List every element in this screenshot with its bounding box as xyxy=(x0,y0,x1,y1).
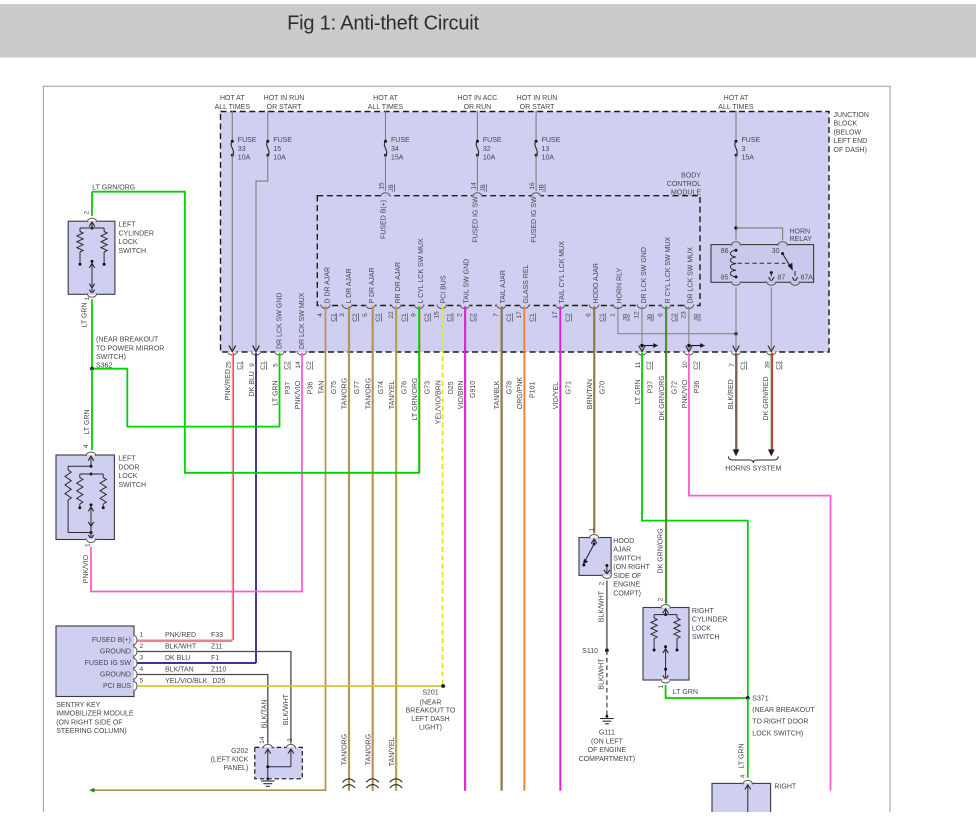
wire BRN/TAN G70 (BCM HODO AJAR to hood ajar switch) xyxy=(593,306,595,533)
svg-text:IMMOBILIZER MODULE: IMMOBILIZER MODULE xyxy=(56,711,134,718)
svg-text:G202: G202 xyxy=(231,748,248,755)
svg-text:TAN/YEL: TAN/YEL xyxy=(389,737,396,766)
svg-text:1: 1 xyxy=(84,543,91,547)
svg-text:2: 2 xyxy=(457,313,464,317)
svg-text:85: 85 xyxy=(721,275,729,282)
svg-text:TAN/YEL: TAN/YEL xyxy=(389,380,396,409)
svg-text:DK GRN/RED: DK GRN/RED xyxy=(763,376,770,420)
svg-text:FUSED B(+): FUSED B(+) xyxy=(92,637,131,644)
svg-text:5: 5 xyxy=(140,677,144,684)
svg-text:TAIL CYL LCK MUX: TAIL CYL LCK MUX xyxy=(559,241,566,304)
svg-text:DOOR: DOOR xyxy=(118,464,139,471)
wire LT GRN (left cylinder lock 1 to S362) xyxy=(91,299,93,368)
splice S371 xyxy=(746,696,750,700)
svg-text:G78: G78 xyxy=(507,381,514,394)
svg-text:F33: F33 xyxy=(211,632,223,639)
svg-text:SWITCH: SWITCH xyxy=(613,555,641,562)
svg-text:HODO AJAR: HODO AJAR xyxy=(593,263,600,303)
svg-text:DR LCK SW MUX: DR LCK SW MUX xyxy=(688,247,695,304)
svg-text:YEL/VIO/BRN: YEL/VIO/BRN xyxy=(436,380,443,424)
svg-text:10A: 10A xyxy=(273,155,286,162)
svg-text:LOCK: LOCK xyxy=(118,473,137,480)
svg-text:1: 1 xyxy=(589,528,596,532)
svg-text:SWITCH: SWITCH xyxy=(692,634,720,641)
svg-text:LEFT: LEFT xyxy=(119,222,137,229)
SKIM pin bumps and numbers xyxy=(133,635,135,645)
svg-text:C2: C2 xyxy=(284,361,291,370)
relay bottom bumps xyxy=(731,281,741,283)
wire fuse3 output to horn relay xyxy=(735,155,737,240)
svg-text:CONTROL: CONTROL xyxy=(667,181,701,188)
svg-text:HOT AT: HOT AT xyxy=(220,95,245,102)
svg-text:DR LCK SW GND: DR LCK SW GND xyxy=(277,293,284,349)
svg-text:(ON LEFT: (ON LEFT xyxy=(591,738,624,745)
svg-text:JB: JB xyxy=(539,184,546,192)
svg-text:C1: C1 xyxy=(506,313,513,322)
diagram frame xyxy=(43,86,890,812)
svg-text:C2: C2 xyxy=(306,361,313,370)
svg-text:R CYL LCK SW MUX: R CYL LCK SW MUX xyxy=(665,237,672,304)
wire TAN/YEL G76 (BCM RR DR AJAR) xyxy=(395,306,397,791)
svg-text:YEL/VIO/BLK: YEL/VIO/BLK xyxy=(165,678,208,685)
svg-text:14: 14 xyxy=(259,736,266,744)
svg-text:PNK/VIO: PNK/VIO xyxy=(295,380,302,409)
svg-text:LEFT END: LEFT END xyxy=(834,138,868,145)
svg-text:JB: JB xyxy=(647,313,654,321)
svg-text:G74: G74 xyxy=(378,381,385,394)
svg-text:LT GRN/ORG: LT GRN/ORG xyxy=(92,184,135,191)
svg-text:TAIL AJAR: TAIL AJAR xyxy=(500,270,507,303)
svg-text:C2: C2 xyxy=(565,313,572,322)
svg-text:JB: JB xyxy=(694,313,701,321)
svg-text:FUSED IG SW: FUSED IG SW xyxy=(85,660,132,667)
left cylinder lock switch box xyxy=(68,221,115,294)
pin 1 right cylinder lock switch xyxy=(660,679,670,681)
svg-text:DR LCK SW MUX: DR LCK SW MUX xyxy=(299,292,306,349)
svg-text:HOT AT: HOT AT xyxy=(373,95,398,102)
svg-text:P DR AJAR: P DR AJAR xyxy=(369,267,376,303)
svg-text:VIO/BRN: VIO/BRN xyxy=(458,380,465,409)
wire BLK/WHT (hood ajar 2 to S110) xyxy=(606,580,608,650)
node fuse3/relay-30 junction xyxy=(734,226,737,229)
svg-text:C1: C1 xyxy=(330,313,337,322)
svg-text:GROUND: GROUND xyxy=(100,672,131,679)
svg-text:(NEAR BREAKOUT: (NEAR BREAKOUT xyxy=(96,337,159,344)
wire TAN/ORG G74 (BCM P DR AJAR) xyxy=(372,306,374,791)
wire TAN/BLK G78 (BCM TAIL AJAR) xyxy=(500,306,502,790)
svg-text:P36: P36 xyxy=(307,382,314,395)
svg-text:TO POWER MIRROR: TO POWER MIRROR xyxy=(96,345,164,352)
svg-text:P36: P36 xyxy=(694,381,701,394)
splice S110 xyxy=(605,649,609,653)
svg-text:12: 12 xyxy=(634,311,641,319)
svg-text:C1: C1 xyxy=(260,361,267,370)
svg-text:HORN: HORN xyxy=(790,228,811,235)
horns arrow left xyxy=(733,449,740,456)
svg-text:S201: S201 xyxy=(422,690,438,697)
svg-text:(LEFT KICK: (LEFT KICK xyxy=(211,757,249,764)
JB pin 5 C2 xyxy=(274,351,284,353)
svg-text:13: 13 xyxy=(542,146,550,153)
svg-text:2: 2 xyxy=(140,643,144,650)
svg-text:CYLINDER: CYLINDER xyxy=(692,617,727,624)
svg-text:TAIL SW GND: TAIL SW GND xyxy=(464,259,471,304)
svg-text:DK BLU: DK BLU xyxy=(165,655,190,662)
svg-text:C2: C2 xyxy=(352,313,359,322)
svg-text:(NEAR: (NEAR xyxy=(420,699,442,706)
svg-text:ENGINE: ENGINE xyxy=(613,582,640,589)
svg-text:2: 2 xyxy=(84,210,91,214)
right cylinder lock switch internals xyxy=(663,609,669,614)
svg-text:4: 4 xyxy=(317,313,324,317)
continuation arcs TAN/ORG G77 xyxy=(343,779,355,782)
fuse 32 10A xyxy=(476,111,478,142)
svg-text:S110: S110 xyxy=(582,648,598,655)
svg-text:Fig 1: Anti-theft Circuit: Fig 1: Anti-theft Circuit xyxy=(287,13,479,35)
svg-text:23: 23 xyxy=(681,311,688,319)
svg-text:COMPT): COMPT) xyxy=(613,590,641,597)
pin 1 left door lock switch xyxy=(86,538,96,540)
wire relay 87 to JB pin 39 xyxy=(770,287,772,351)
svg-text:S371: S371 xyxy=(752,696,768,703)
splice S201 xyxy=(441,684,445,688)
fuse 13 10A xyxy=(535,111,537,142)
relay pin 86 bump xyxy=(731,243,741,245)
svg-text:G71: G71 xyxy=(566,381,573,394)
svg-text:FUSED B(+): FUSED B(+) xyxy=(381,200,388,239)
svg-text:OR START: OR START xyxy=(267,104,302,111)
svg-text:PNK/RED: PNK/RED xyxy=(225,369,232,400)
svg-text:RR DR AJAR: RR DR AJAR xyxy=(395,262,402,304)
svg-text:SENTRY KEY: SENTRY KEY xyxy=(56,702,100,709)
svg-text:TAN/ORG: TAN/ORG xyxy=(342,734,349,765)
svg-text:SWITCH: SWITCH xyxy=(119,248,147,255)
svg-text:Z11: Z11 xyxy=(211,643,223,650)
svg-text:BLK/TAN: BLK/TAN xyxy=(261,700,268,729)
wire VIO/BRN G910 (BCM TAIL SW GND) xyxy=(464,306,466,790)
svg-text:FUSED IG SW: FUSED IG SW xyxy=(531,196,538,243)
svg-text:LOCK: LOCK xyxy=(119,239,138,246)
wire VIO/YEL G71 (BCM TAIL CYL LCK MUX) xyxy=(559,306,561,790)
svg-text:BLK/WHT: BLK/WHT xyxy=(598,658,605,690)
ground symbol G111 xyxy=(606,715,609,718)
svg-text:LEFT DASH: LEFT DASH xyxy=(411,716,449,723)
svg-text:C1: C1 xyxy=(740,361,747,370)
svg-text:L DR AJAR: L DR AJAR xyxy=(346,268,353,303)
svg-text:10A: 10A xyxy=(483,155,496,162)
wire TAN G75 (BCM D DR AJAR) xyxy=(94,306,326,790)
wire DK GRN/RED (JB 39 to horns) xyxy=(770,353,772,450)
wire TAN/ORG G77 (BCM L DR AJAR) xyxy=(348,306,350,791)
svg-text:C1: C1 xyxy=(447,313,454,322)
svg-text:PNK/VIO: PNK/VIO xyxy=(83,554,90,583)
svg-text:BLK/WHT: BLK/WHT xyxy=(283,693,290,725)
relay coil 86-85 xyxy=(735,249,738,252)
svg-text:TAN/BLK: TAN/BLK xyxy=(494,380,501,409)
horn relay box xyxy=(711,245,814,283)
wire YEL/VIO/BLK D25 row (to S201) xyxy=(137,685,443,687)
wire LT GRN P37 (JB 5 to S362 branch) xyxy=(92,353,280,427)
svg-text:1: 1 xyxy=(84,296,91,300)
svg-text:RIGHT: RIGHT xyxy=(692,608,715,615)
svg-text:TAN/ORG: TAN/ORG xyxy=(365,734,372,765)
wire DR LCK SW GND internal (BCM pin 12 to JB pin 11) xyxy=(641,306,643,351)
wire LT GRN/ORG drop to switch pin 2 xyxy=(91,192,93,216)
wire LT GRN (right cylinder lock 1 to S371) xyxy=(666,685,748,698)
wire LT GRN (S362 to left door lock 4) xyxy=(91,369,93,450)
svg-text:G111: G111 xyxy=(599,730,615,737)
svg-text:6: 6 xyxy=(658,313,665,317)
svg-text:G73: G73 xyxy=(424,381,431,394)
svg-text:LT GRN: LT GRN xyxy=(673,689,698,696)
svg-text:87: 87 xyxy=(778,275,786,282)
svg-text:BLK/WHT: BLK/WHT xyxy=(598,590,605,622)
svg-text:COMPARTMENT): COMPARTMENT) xyxy=(579,756,636,763)
svg-text:HOT IN RUN: HOT IN RUN xyxy=(264,95,305,102)
svg-text:BLOCK: BLOCK xyxy=(834,121,858,128)
svg-text:Z110: Z110 xyxy=(211,666,227,673)
svg-text:FUSED IG SW: FUSED IG SW xyxy=(472,196,479,243)
svg-text:33: 33 xyxy=(238,146,246,153)
svg-text:LT GRN: LT GRN xyxy=(82,302,89,327)
hood ajar switch internals xyxy=(591,539,597,544)
svg-text:TAN: TAN xyxy=(318,381,325,394)
svg-text:P37: P37 xyxy=(647,381,654,394)
wire PNK/VIO P36 (JB 10 to right door area) xyxy=(689,353,831,791)
wire LT GRN (S371 to right door lock 4) xyxy=(747,698,749,778)
svg-text:15: 15 xyxy=(273,146,281,153)
wire fuse33 output to JB pin 25 xyxy=(231,155,233,351)
svg-text:LT GRN: LT GRN xyxy=(738,743,745,768)
svg-text:(ON RIGHT: (ON RIGHT xyxy=(613,564,650,571)
wire fuse15 output jog to JB pin 9 xyxy=(256,155,268,351)
svg-text:GROUND: GROUND xyxy=(100,649,131,656)
ground symbol G202 xyxy=(266,777,269,780)
svg-text:STEERING COLUMN): STEERING COLUMN) xyxy=(56,728,126,735)
svg-text:OR START: OR START xyxy=(520,104,555,111)
svg-text:F1: F1 xyxy=(211,655,219,662)
svg-text:HOT IN RUN: HOT IN RUN xyxy=(517,95,558,102)
relay pin 30 bump xyxy=(777,243,787,245)
svg-text:DK GRN/ORG: DK GRN/ORG xyxy=(658,528,665,573)
wire DK GRN/ORG G72 (BCM R CYL LCK SW MUX to right cylinder lock switch) xyxy=(665,306,667,603)
svg-text:15: 15 xyxy=(433,311,440,319)
wire PNK/RED F33 row xyxy=(137,639,233,641)
svg-text:14: 14 xyxy=(471,182,478,190)
svg-text:HORNS SYSTEM: HORNS SYSTEM xyxy=(725,465,781,472)
svg-text:1: 1 xyxy=(610,313,617,317)
svg-text:BRN/TAN: BRN/TAN xyxy=(587,379,594,409)
relay pin 87A xyxy=(794,271,796,276)
svg-text:CYLINDER: CYLINDER xyxy=(119,230,154,237)
svg-text:LOCK: LOCK xyxy=(692,625,711,632)
horns arrow right xyxy=(768,449,775,456)
wire PNK/VIO P36 (JB 14 to left door lock 1) xyxy=(91,353,302,592)
svg-text:LEFT: LEFT xyxy=(118,456,136,463)
svg-text:5: 5 xyxy=(362,313,369,317)
svg-text:HOT AT: HOT AT xyxy=(724,95,749,102)
svg-text:ALL TIMES: ALL TIMES xyxy=(215,104,251,111)
svg-text:TAN/ORG: TAN/ORG xyxy=(365,378,372,409)
svg-text:OF ENGINE: OF ENGINE xyxy=(588,747,627,754)
JB pin 25 C1 xyxy=(227,351,237,353)
svg-text:P101: P101 xyxy=(530,382,537,398)
JB pin 14 C2 xyxy=(297,351,307,353)
svg-text:ORG/PNK: ORG/PNK xyxy=(517,377,524,410)
svg-text:C3: C3 xyxy=(776,361,783,370)
fuse 15 10A xyxy=(267,111,269,142)
right cylinder lock switch box xyxy=(643,608,689,681)
wire BLK/TAN Z110 row (to G202) xyxy=(137,675,267,744)
pin 1 left cylinder lock switch xyxy=(87,293,97,295)
wire ORG/PNK P101 (BCM GLASS REL) xyxy=(523,306,525,790)
svg-text:L CYL LCK SW MUX: L CYL LCK SW MUX xyxy=(418,238,425,304)
svg-text:10A: 10A xyxy=(542,155,555,162)
svg-text:(ON RIGHT SIDE OF: (ON RIGHT SIDE OF xyxy=(56,719,122,726)
svg-text:4: 4 xyxy=(739,774,746,778)
svg-text:HOT IN ACC: HOT IN ACC xyxy=(457,95,497,102)
svg-text:17: 17 xyxy=(552,311,559,319)
svg-text:4: 4 xyxy=(83,444,90,448)
svg-text:D25: D25 xyxy=(213,678,226,685)
svg-text:C2: C2 xyxy=(424,313,431,322)
svg-text:30: 30 xyxy=(772,248,780,255)
svg-text:RIGHT: RIGHT xyxy=(774,783,797,790)
fuse 33 10A xyxy=(231,111,233,142)
body control module (dashed box) xyxy=(317,196,700,306)
svg-text:RELAY: RELAY xyxy=(790,236,813,243)
svg-text:GLASS REL: GLASS REL xyxy=(523,264,530,303)
svg-text:22: 22 xyxy=(388,311,395,319)
fuse 3 15A xyxy=(735,111,737,142)
svg-text:G75: G75 xyxy=(331,381,338,394)
svg-text:34: 34 xyxy=(391,146,399,153)
svg-text:C2: C2 xyxy=(671,313,678,322)
svg-text:BODY: BODY xyxy=(681,172,701,179)
pin 2 hood ajar switch xyxy=(602,574,612,576)
svg-text:VIO/YEL: VIO/YEL xyxy=(553,382,560,409)
svg-text:LT GRN: LT GRN xyxy=(272,380,279,405)
wire fuse34 output to BCM pin 15 JB xyxy=(385,155,387,191)
svg-text:D25: D25 xyxy=(448,381,455,394)
svg-text:C2: C2 xyxy=(470,313,477,322)
svg-text:ALL TIMES: ALL TIMES xyxy=(368,104,404,111)
svg-text:C1: C1 xyxy=(237,361,244,370)
svg-text:TO RIGHT DOOR: TO RIGHT DOOR xyxy=(752,719,808,726)
JB pin 9 C1 xyxy=(251,351,261,353)
svg-text:FUSE: FUSE xyxy=(483,137,502,144)
horns system brace xyxy=(728,456,778,463)
svg-text:TAN/ORG: TAN/ORG xyxy=(342,378,349,409)
relay pin 87 xyxy=(770,271,773,274)
svg-text:9: 9 xyxy=(411,313,418,317)
right door lock switch box xyxy=(712,783,771,813)
svg-text:FUSE: FUSE xyxy=(273,137,292,144)
svg-text:PCI BUS: PCI BUS xyxy=(441,275,448,303)
svg-text:2: 2 xyxy=(658,597,665,601)
svg-text:SWITCH): SWITCH) xyxy=(96,354,126,361)
wire DK BLU F1 (JB 9 to SKIM 3) xyxy=(255,353,257,663)
svg-text:G72: G72 xyxy=(671,381,678,394)
svg-text:D DR AJAR: D DR AJAR xyxy=(324,267,331,304)
svg-text:7: 7 xyxy=(493,313,500,317)
svg-text:P37: P37 xyxy=(285,382,292,395)
svg-text:3: 3 xyxy=(339,313,346,317)
svg-text:LIGHT): LIGHT) xyxy=(419,725,442,732)
svg-text:G77: G77 xyxy=(354,381,361,394)
svg-text:87A: 87A xyxy=(801,275,814,282)
svg-text:AJAR: AJAR xyxy=(613,547,631,554)
svg-text:2: 2 xyxy=(598,581,605,585)
wire LT GRN/ORG G73 (BCM L CYL LCK SW MUX to left cylinder lock switch) xyxy=(92,192,419,473)
wire BLK/WHT dashed (S110 to G111) xyxy=(606,650,608,715)
svg-text:G910: G910 xyxy=(470,381,477,398)
svg-text:PANEL): PANEL) xyxy=(224,765,249,772)
svg-text:FUSE: FUSE xyxy=(391,137,410,144)
svg-text:DR LCK SW GND: DR LCK SW GND xyxy=(641,247,648,303)
svg-text:15A: 15A xyxy=(391,155,404,162)
node relay-85 wire junction xyxy=(734,332,737,335)
svg-text:JUNCTION: JUNCTION xyxy=(834,112,869,119)
svg-text:17: 17 xyxy=(516,311,523,319)
svg-text:C2: C2 xyxy=(693,361,700,370)
svg-text:DK GRN/ORG: DK GRN/ORG xyxy=(659,375,666,420)
svg-text:LT GRN: LT GRN xyxy=(84,409,91,434)
svg-text:32: 32 xyxy=(483,146,491,153)
svg-text:FUSE: FUSE xyxy=(542,137,561,144)
sentry key immobilizer module box xyxy=(56,626,134,697)
ground G202 box xyxy=(255,747,302,778)
svg-text:3: 3 xyxy=(287,738,294,742)
svg-text:HORN RLY: HORN RLY xyxy=(617,268,624,304)
svg-text:16: 16 xyxy=(529,182,536,190)
svg-text:ALL TIMES: ALL TIMES xyxy=(718,104,754,111)
wire BLK/WHT Z11 row (to G202) xyxy=(137,652,291,744)
svg-text:4: 4 xyxy=(140,666,144,673)
wire DK BLU F1 row xyxy=(137,662,256,664)
pin 4 right door lock switch xyxy=(743,782,753,784)
svg-text:39: 39 xyxy=(765,361,772,369)
svg-text:LT GRN: LT GRN xyxy=(635,379,642,404)
svg-text:BLK/TAN: BLK/TAN xyxy=(165,666,194,673)
svg-text:JB: JB xyxy=(623,313,630,321)
wire relay 85 to JB pin 7 xyxy=(735,287,737,351)
wire DR LCK SW MUX internal (BCM pin 23 to JB pin 10) xyxy=(688,306,690,351)
svg-text:(NEAR BREAKOUT: (NEAR BREAKOUT xyxy=(752,707,815,714)
continuation arcs TAN/ORG G74 xyxy=(366,779,378,782)
svg-text:15: 15 xyxy=(379,182,386,190)
svg-text:MODULE: MODULE xyxy=(671,189,701,196)
svg-text:C2: C2 xyxy=(646,361,653,370)
wire fuse13 output to BCM pin 16 JB xyxy=(535,155,537,191)
relay switch blade 30-87A xyxy=(781,252,784,255)
svg-text:25: 25 xyxy=(226,361,233,369)
relay mechanical link (dashed) xyxy=(738,262,786,264)
svg-text:1: 1 xyxy=(658,684,665,688)
svg-text:7: 7 xyxy=(729,363,736,367)
svg-text:15A: 15A xyxy=(742,155,755,162)
svg-text:FUSE: FUSE xyxy=(238,137,257,144)
left cylinder lock switch internals xyxy=(89,222,95,227)
svg-text:3: 3 xyxy=(140,654,144,661)
wire PNK/RED F33 (JB 25 to SKIM 1) xyxy=(231,353,233,640)
svg-text:SWITCH: SWITCH xyxy=(118,482,146,489)
svg-text:FUSE: FUSE xyxy=(742,137,761,144)
svg-text:BLK/WHT: BLK/WHT xyxy=(165,643,197,650)
svg-text:JB: JB xyxy=(480,184,487,192)
wire HORN RLY internal (BCM pin 1 to relay 85) xyxy=(618,306,736,333)
svg-text:OR RUN: OR RUN xyxy=(464,104,492,111)
